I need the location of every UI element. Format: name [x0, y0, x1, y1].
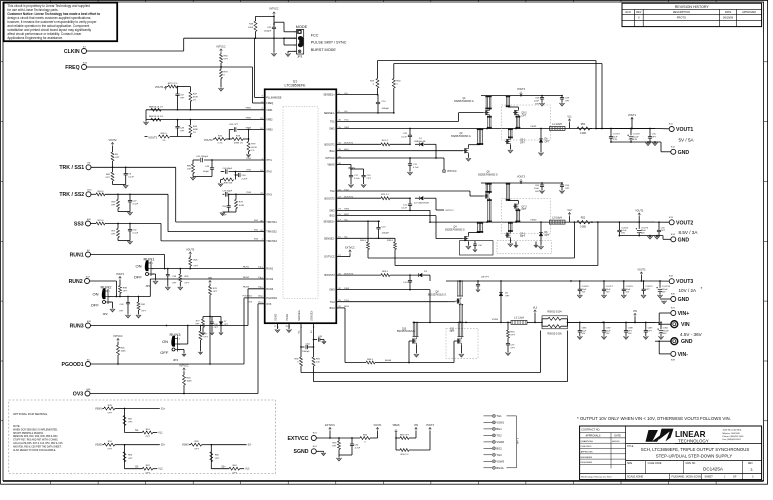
svg-text:VOUT3: VOUT3: [204, 138, 213, 142]
svg-text:OPT: OPT: [128, 458, 133, 460]
svg-text:10K: 10K: [187, 169, 191, 171]
resistor R52 0.006 ch2: [577, 220, 590, 223]
wire INTVCC to D2: [435, 204, 437, 210]
svg-text:SENSE1-: SENSE1-: [324, 112, 335, 115]
svg-text:16V: 16V: [641, 233, 645, 235]
resistor R84: [220, 53, 222, 55]
svg-text:TG2: TG2: [330, 190, 335, 193]
svg-text:CHECKED: CHECKED: [581, 446, 592, 448]
svg-text:S3+: S3+: [221, 465, 226, 468]
svg-text:S3-: S3-: [311, 330, 313, 333]
svg-text:22uF: 22uF: [534, 188, 540, 190]
svg-text:OFF: OFF: [91, 302, 100, 307]
svg-text:OPT: OPT: [652, 136, 657, 138]
svg-text:OPT: OPT: [146, 472, 151, 474]
svg-text:TG1: TG1: [330, 121, 335, 124]
resistor R30: [392, 79, 395, 89]
terminal GND (E14): [671, 237, 676, 242]
svg-text:C41 1500pF: C41 1500pF: [196, 156, 209, 158]
capacitor C45: [314, 339, 318, 341]
ground ITH1: [190, 177, 195, 180]
svg-text:ECO: ECO: [625, 11, 630, 14]
svg-text:EXTVCC: EXTVCC: [345, 247, 355, 250]
svg-text:0.1uF: 0.1uF: [133, 233, 139, 235]
wire VIN+ jog: [659, 312, 671, 314]
svg-text:FREQ: FREQ: [266, 102, 273, 105]
svg-text:EXTVCC: EXTVCC: [325, 424, 335, 427]
svg-text:Q7-2: Q7-2: [522, 206, 528, 208]
svg-text:APPROVED: APPROVED: [581, 451, 594, 454]
svg-text:BG1: BG1: [330, 150, 336, 153]
terminal FREQ (E23): [82, 65, 87, 70]
capacitor C67: [177, 87, 179, 95]
svg-text:1%: 1%: [162, 140, 165, 142]
svg-text:1000pF: 1000pF: [382, 108, 390, 110]
svg-text:10uF: 10uF: [606, 289, 611, 291]
wire GND1 terminal: [661, 151, 671, 153]
svg-text:GND: GND: [678, 297, 690, 303]
svg-text:10uF: 10uF: [582, 330, 587, 332]
svg-text:COUT7: COUT7: [606, 286, 614, 288]
svg-text:BG3A: BG3A: [496, 466, 503, 470]
wire input rail ch1: [481, 95, 562, 97]
svg-text:CONTRACT NO.: CONTRACT NO.: [581, 429, 600, 432]
svg-text:OPT: OPT: [332, 446, 337, 448]
capacitor C43: [211, 160, 213, 168]
capacitor C38: [167, 269, 169, 275]
wire PGOOD1: [91, 363, 245, 365]
svg-text:ITH1: ITH1: [266, 159, 272, 162]
svg-text:BSZ067N06NS3 G: BSZ067N06NS3 G: [478, 175, 498, 177]
svg-text:0.1uF: 0.1uF: [401, 136, 407, 138]
svg-text:BG2: BG2: [330, 215, 336, 218]
diode D6 ch2: [540, 222, 542, 232]
svg-text:TECHNOLOGY: TECHNOLOGY: [678, 438, 709, 443]
wire TG1 route: [336, 120, 458, 122]
svg-text:Q5-1: Q5-1: [520, 140, 526, 142]
capacitor C55b: [233, 127, 235, 131]
op-amp U1 LTC3859EFE body: [265, 89, 337, 323]
svg-text:VFB3: VFB3: [266, 129, 273, 132]
svg-text:Fax: (408)434-0507: Fax: (408)434-0507: [723, 439, 742, 441]
svg-text:BSZ067N06NS3 G: BSZ067N06NS3 G: [454, 101, 474, 103]
svg-text:DATE: DATE: [614, 435, 621, 438]
svg-text:OPT: OPT: [123, 291, 128, 293]
svg-text:OPT: OPT: [661, 230, 666, 232]
svg-text:VFB1: VFB1: [266, 109, 273, 112]
svg-text:R8 2.2: R8 2.2: [382, 140, 389, 142]
wire ITH3: [223, 193, 225, 195]
svg-text:6.3V: 6.3V: [613, 139, 618, 141]
svg-text:VSW2: VSW2: [95, 444, 102, 447]
resistor R97: [117, 194, 119, 199]
svg-text:10uF: 10uF: [606, 330, 611, 332]
svg-text:OPT: OPT: [214, 327, 219, 329]
wire JP2 pin3 gnd: [108, 301, 113, 303]
inductor L1 4.8uH ch1: [550, 127, 566, 131]
svg-text:SGND: SGND: [294, 449, 309, 455]
svg-text:VOUT1: VOUT1: [155, 85, 164, 89]
svg-text:SENSE2-: SENSE2-: [324, 237, 335, 240]
svg-text:GND: GND: [678, 237, 690, 243]
ground below C11: [407, 172, 412, 175]
capacitor C62: [273, 24, 275, 27]
svg-text:L2 6.8uH: L2 6.8uH: [552, 217, 562, 220]
svg-text:VIN: VIN: [414, 424, 418, 427]
label VL3: [534, 313, 536, 322]
wire SENSE1+ route: [336, 94, 377, 96]
svg-text:Q8 OPT: Q8 OPT: [481, 277, 490, 279]
svg-text:VOUT1: VOUT1: [676, 127, 693, 133]
svg-text:JP4: JP4: [173, 358, 179, 362]
svg-text:OPT: OPT: [565, 188, 570, 190]
svg-text:TG1: TG1: [496, 414, 502, 418]
wire VOUT1 terminal: [655, 128, 669, 130]
svg-text:50V: 50V: [582, 292, 586, 294]
wire BOOST3: [336, 274, 381, 276]
svg-text:R87 0 1%: R87 0 1%: [168, 83, 178, 85]
svg-text:RUN1: RUN1: [70, 252, 84, 258]
svg-text:0.006: 0.006: [580, 226, 587, 229]
svg-text:ALSO REFER TO DC53 FOR EXAMPLE: ALSO REFER TO DC53 FOR EXAMPLE.: [13, 449, 56, 452]
svg-text:EXTVCC: EXTVCC: [287, 436, 308, 442]
capacitor C60 22uF 50V ch2: [541, 183, 543, 185]
resistor R79c: [247, 142, 250, 152]
svg-text:REV: REV: [636, 11, 641, 14]
svg-text:INTVCC: INTVCC: [270, 8, 279, 11]
capacitor C52: [129, 224, 131, 230]
wire TRK/SS2: [105, 193, 168, 195]
svg-text:PGOOD1: PGOOD1: [266, 297, 277, 300]
svg-text:WHEN DCR SENSING IS IMPLEMENTE: WHEN DCR SENSING IS IMPLEMENTED,: [13, 429, 58, 431]
svg-text:R94 0: R94 0: [98, 191, 105, 193]
svg-text:VOUT3: VOUT3: [676, 279, 693, 285]
svg-text:0.1uF: 0.1uF: [401, 208, 407, 210]
ground below C62: [271, 53, 276, 56]
svg-text:VSW3: VSW3: [496, 459, 504, 463]
svg-text:C45 68pF: C45 68pF: [223, 168, 233, 170]
border zone ticks: [50, 0, 52, 2]
OPT footprint dashed box ch1: [502, 105, 551, 140]
svg-text:220uF: 220uF: [662, 289, 669, 291]
ground below JP2: [110, 309, 115, 312]
capacitor C61: [351, 438, 353, 444]
svg-text:OPT: OPT: [645, 289, 650, 291]
wire OV3: [90, 393, 258, 395]
svg-text:MODE: MODE: [296, 25, 308, 29]
terminal TRK / SS1 (E9): [86, 165, 91, 170]
resistor R71: [117, 224, 119, 229]
svg-text:GND: GND: [678, 150, 690, 156]
svg-text:INTVCC: INTVCC: [447, 169, 457, 173]
wire BG2 route: [336, 215, 436, 217]
svg-text:PULSE SKIP / SYNC: PULSE SKIP / SYNC: [311, 41, 347, 45]
resistor R87: [167, 86, 169, 88]
wire VIN- jog: [659, 353, 671, 355]
resistor R9: [112, 146, 114, 152]
svg-text:VL1: VL1: [567, 116, 572, 119]
svg-text:OPT: OPT: [111, 234, 116, 236]
svg-text:OPT: OPT: [628, 330, 633, 332]
svg-text:OPT: OPT: [522, 116, 527, 118]
wire VOUT3 terminal: [655, 280, 669, 282]
capacitor bank VOUT3 (COUT6-COUT10): [571, 280, 655, 282]
svg-text:OV3: OV3: [73, 391, 83, 397]
svg-text:OPT: OPT: [115, 157, 120, 159]
svg-text:CALCULATE R45, R47 & C14, R51,: CALCULATE R45, R47 & C14, R51, R52 & C15…: [13, 442, 63, 445]
capacitor C45: [224, 169, 226, 174]
svg-text:4.7uF: 4.7uF: [355, 448, 361, 450]
svg-text:VSW3: VSW3: [492, 319, 499, 321]
svg-text:OPT: OPT: [511, 335, 516, 337]
svg-text:RUN2: RUN2: [243, 277, 250, 279]
capacitor C15: [378, 221, 380, 227]
svg-text:VOUT3: VOUT3: [517, 88, 526, 91]
resistor R79b: [235, 194, 237, 199]
wire TG3 route: [336, 301, 448, 303]
svg-text:COUT10: COUT10: [662, 286, 671, 288]
ground below JP1: [153, 281, 158, 284]
ground below R55: [336, 458, 341, 461]
wire RUN2: [90, 280, 117, 282]
svg-text:AND R58, R59 & C56 PER THE DAT: AND R58, R59 & C56 PER THE DATA SHEET.: [13, 445, 62, 448]
terminal GND (E12): [671, 149, 676, 154]
diode D2 CMDSH-4E: [420, 196, 423, 200]
resistor R8: [381, 143, 390, 146]
svg-text:OPT: OPT: [108, 412, 113, 414]
svg-text:VOUT3: VOUT3: [426, 424, 435, 427]
resistor RSNS1 0.004: [542, 316, 568, 329]
ground ITH2: [218, 183, 223, 186]
capacitor C20: [409, 129, 411, 136]
svg-text:OPT: OPT: [232, 472, 237, 474]
resistor R56: [396, 449, 400, 451]
svg-text:OFF: OFF: [160, 350, 169, 355]
capacitor C16: [363, 169, 365, 175]
svg-text:SENSE3-: SENSE3-: [311, 310, 314, 320]
svg-text:R63 0: R63 0: [382, 271, 389, 273]
ground below C9: [123, 185, 128, 188]
transistor Q9 OPT dashed box: [497, 241, 551, 254]
terminal RUN3 (E26): [86, 323, 91, 328]
svg-text:DRAWN MH: DRAWN MH: [581, 440, 594, 443]
svg-text:BG3A: BG3A: [385, 359, 391, 362]
wire gate Q10: [408, 341, 410, 363]
wire sense3 bus A: [301, 372, 541, 374]
svg-text:SS3: SS3: [74, 221, 84, 227]
terminal TRK / SS2 (E10): [86, 192, 91, 197]
power flag INTVCC (R84 branch): [220, 49, 223, 53]
svg-text:BOOST1: BOOST1: [325, 143, 336, 146]
wire VOUT2 rail: [590, 221, 655, 223]
wire VFB3: [229, 129, 233, 131]
svg-text:RUN3: RUN3: [243, 287, 250, 289]
svg-text:RUN2: RUN2: [69, 279, 83, 285]
svg-text:* OUTPUT 10V ONLY WHEN VIN < 1: * OUTPUT 10V ONLY WHEN VIN < 10V, OTHERW…: [577, 416, 731, 421]
resistor R60: [183, 372, 185, 376]
wire VOUT2 terminal: [655, 221, 669, 223]
svg-text:Q11: Q11: [450, 328, 455, 330]
capacitor bank VOUT1 (COUT1 COUT2 C36): [596, 128, 655, 130]
svg-text:Wednesday, February 10, 2010: Wednesday, February 10, 2010: [581, 476, 612, 479]
diode D4 ch1: [540, 129, 542, 139]
svg-text:Phone: (408)432-1900: Phone: (408)432-1900: [723, 436, 745, 438]
power flag VOUT3 feed ch2: [520, 179, 523, 183]
wire JP4 pin3 gnd: [178, 349, 185, 351]
transistor Q7-1 ch2: [506, 233, 508, 238]
wire S1+ top run: [378, 60, 597, 62]
svg-text:TITLE: TITLE: [627, 446, 634, 448]
svg-text:FCC: FCC: [311, 33, 319, 37]
svg-text:VOUT1: VOUT1: [374, 424, 383, 427]
power flag VIN PGOOD pullup: [209, 280, 212, 284]
resistor R65: [396, 437, 400, 439]
terminal RUN1 (E2): [86, 252, 91, 257]
svg-text:RUN2: RUN2: [266, 278, 273, 281]
svg-text:10uF: 10uF: [626, 289, 631, 291]
title block fields: [626, 443, 762, 445]
svg-text:TRK/SS2: TRK/SS2: [266, 231, 277, 234]
svg-text:OPT: OPT: [213, 291, 218, 293]
svg-text:50V: 50V: [626, 292, 630, 294]
svg-text:TG3: TG3: [330, 301, 335, 304]
svg-text:COUT6: COUT6: [582, 286, 590, 288]
svg-text:VFB3: VFB3: [246, 127, 252, 129]
svg-text:4.7uF: 4.7uF: [621, 230, 627, 232]
svg-text:2.2nF: 2.2nF: [242, 178, 248, 180]
svg-text:50V: 50V: [628, 333, 632, 335]
resistor R83: [151, 118, 161, 121]
title block grid: [580, 426, 762, 480]
diode D1 CMDSH-4E: [420, 143, 423, 147]
svg-text:100K: 100K: [248, 27, 254, 29]
svg-text:VOUT2: VOUT2: [635, 210, 644, 213]
svg-text:RUN1: RUN1: [243, 266, 250, 268]
capacitor C54: [228, 194, 230, 206]
label VOUT3 pullup RUN2: [119, 276, 122, 280]
resistor R41: [138, 297, 140, 303]
wire SENSE2+ route: [336, 220, 380, 222]
svg-text:COUT2: COUT2: [633, 134, 641, 136]
svg-text:SW3: SW3: [329, 289, 335, 292]
svg-text:TRK/SS3: TRK/SS3: [266, 240, 277, 243]
svg-text:DESCRIPTION: DESCRIPTION: [673, 11, 690, 14]
svg-text:6.3V: 6.3V: [633, 139, 638, 141]
ground at SGND: [321, 453, 326, 456]
resistor R49: [507, 322, 509, 330]
resistor R94: [91, 193, 96, 195]
resistor R38: [234, 172, 236, 180]
svg-text:BOOST3: BOOST3: [325, 274, 336, 277]
svg-text:0.1uF: 0.1uF: [354, 178, 360, 180]
svg-text:PROTO: PROTO: [677, 16, 686, 20]
svg-text:8.5V / 3A: 8.5V / 3A: [679, 230, 699, 235]
wire VIN terminal: [655, 321, 659, 323]
svg-text:NOTE:: NOTE:: [13, 426, 20, 428]
terminal VOUT2 (E13): [669, 220, 674, 225]
svg-text:0 1%: 0 1%: [218, 143, 223, 145]
capacitor C40: [211, 317, 213, 323]
resistor R88: [151, 108, 161, 111]
capacitor C21: [409, 198, 411, 204]
svg-text:CIN6: CIN6: [582, 328, 588, 330]
resistor R63b: [381, 274, 390, 277]
svg-text:L3 1.2uH: L3 1.2uH: [514, 316, 524, 319]
svg-text:OV3: OV3: [266, 303, 272, 306]
svg-text:68.1K: 68.1K: [251, 147, 257, 149]
svg-text:APPROVED: APPROVED: [742, 11, 756, 14]
wire SW3 rail: [414, 321, 511, 323]
power flag EXTVCC bottom: [329, 427, 332, 431]
svg-text:68uF: 68uF: [641, 230, 646, 232]
terminal VOUT3 (E34): [669, 279, 674, 284]
svg-text:OPTIONAL DCR SENSING: OPTIONAL DCR SENSING: [13, 412, 47, 416]
wire gate Q11: [409, 362, 454, 364]
svg-text:R88 68.1K 1%: R88 68.1K 1%: [149, 106, 163, 108]
capacitor C4: [409, 275, 411, 280]
capacitor C47: [129, 194, 131, 200]
svg-text:16V: 16V: [621, 233, 625, 235]
label VOUT2 pullup: [111, 142, 114, 146]
svg-text:BSC057N03LS G: BSC057N03LS G: [397, 331, 415, 333]
capacitor C44: [235, 174, 238, 176]
capacitor C55: [224, 192, 226, 197]
svg-text:BSC057N03LS G: BSC057N03LS G: [428, 294, 446, 296]
svg-text:RUN1: RUN1: [144, 257, 156, 262]
wire SGND term: [316, 450, 323, 452]
svg-text:R52: R52: [581, 217, 586, 220]
svg-text:OPT: OPT: [545, 142, 550, 144]
svg-text:4.7uF: 4.7uF: [413, 167, 419, 169]
svg-text:BG1: BG1: [496, 427, 502, 431]
svg-text:TG3: TG3: [496, 453, 502, 457]
wire BG3 route: [336, 307, 345, 309]
svg-text:R25 2.2: R25 2.2: [381, 194, 389, 196]
svg-text:PLLIN/MODE: PLLIN/MODE: [266, 97, 281, 100]
wire GND3 terminal: [660, 298, 671, 300]
svg-text:VSW2: VSW2: [530, 220, 537, 222]
svg-text:INTVCC: INTVCC: [446, 210, 455, 212]
ground below C16: [361, 184, 366, 187]
svg-text:COUT5: COUT5: [641, 227, 649, 229]
resistor R82: [112, 167, 114, 172]
resistor R94b: [366, 361, 375, 364]
terminal RUN2 (E22): [85, 279, 90, 284]
svg-text:CIN4: CIN4: [663, 328, 669, 330]
wire SENSE3- drop: [313, 323, 315, 354]
svg-text:PGOOD1: PGOOD1: [243, 296, 253, 298]
svg-text:*: *: [701, 286, 703, 291]
resistor R98: [119, 280, 121, 286]
svg-text:Q5-2: Q5-2: [522, 113, 528, 115]
wire RUN3: [91, 325, 249, 327]
svg-text:DESIGNER: DESIGNER: [581, 462, 593, 464]
power flag INTVCC (JP3): [273, 12, 276, 16]
transistor Q9 body box: [459, 241, 493, 255]
svg-text:R38 15K: R38 15K: [224, 182, 233, 184]
svg-text:1000pF: 1000pF: [264, 30, 272, 32]
jumper JP1: [150, 261, 152, 276]
wire VOUT3 sense node: [170, 136, 190, 138]
resistor R91: [313, 354, 315, 357]
resistor R26: [189, 256, 191, 258]
svg-text:VOUT3: VOUT3: [517, 175, 526, 178]
svg-text:INTVCC: INTVCC: [325, 157, 335, 160]
wire VBIAS branch: [336, 164, 351, 166]
ground below JP4: [182, 354, 186, 356]
ground below R77b: [198, 352, 202, 354]
svg-text:OPT: OPT: [450, 331, 455, 333]
